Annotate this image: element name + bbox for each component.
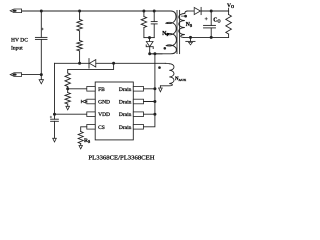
wire secondary top lead (187, 10, 194, 12)
svg-text:CS: CS (98, 125, 105, 131)
pin box left GND (87, 99, 95, 104)
wire startup top lead (79, 11, 81, 19)
svg-text:NP: NP (162, 31, 169, 37)
wire R4 top lead (67, 89, 69, 93)
wire secondary bottom wire (184, 36, 229, 38)
wire clamp join (144, 37, 154, 39)
resistor R1 startup upper (77, 19, 82, 31)
wire Z1 bottom lead (150, 47, 162, 54)
resistor R7 load (226, 15, 232, 35)
wire input return (22, 74, 42, 76)
wire C1 bottom lead (40, 39, 42, 74)
pin box right Drain3 (133, 112, 143, 117)
svg-text:GND: GND (98, 100, 110, 106)
wire C2 top lead (54, 114, 56, 119)
node drain pin2 junction (153, 100, 156, 103)
node output ground junction (189, 36, 192, 39)
diode Z1 clamp TVS points down (146, 42, 153, 47)
pin box right Drain1 (133, 87, 143, 92)
ground Rs arrow (80, 144, 82, 146)
pin box right Drain4 (133, 125, 143, 130)
wire startup mid lead (79, 31, 81, 41)
wire FB node to FB pin (68, 88, 87, 90)
pin box left FB (87, 87, 95, 92)
wire FB node lead (67, 87, 69, 89)
wire Z1 top lead (149, 38, 151, 42)
node VDD pin junction (53, 113, 56, 116)
wire Co bottom lead (210, 28, 212, 38)
ground C2 arrow (53, 138, 57, 142)
node drain pin1 junction (153, 87, 156, 90)
svg-text:Drain: Drain (119, 87, 132, 93)
connector J1 HV+ input terminal (10, 9, 21, 13)
wire drain bus (144, 54, 155, 127)
svg-text:NAUX: NAUX (175, 77, 187, 82)
pin box right Drain2 (133, 99, 143, 104)
node Z1 bottom junction (148, 52, 151, 55)
wire VDD pin wire (55, 113, 87, 115)
node Co top junction (210, 10, 213, 13)
node Co bottom junction (210, 36, 213, 39)
resistor R6 clamp (141, 17, 146, 28)
node drain bus top junction (153, 52, 156, 55)
resistor R2 startup lower (77, 41, 82, 51)
svg-text:Drain: Drain (119, 125, 132, 131)
resistor R5 Rs sense (78, 132, 83, 144)
connector J2 HV- input terminal (10, 73, 21, 77)
wire startup bottom lead (79, 51, 81, 63)
ground aux arrow (159, 86, 161, 88)
wire aux entry (165, 62, 169, 64)
node FB divider tap junction (112, 62, 115, 65)
ground FB divider arrow (67, 104, 69, 106)
capacitor C2 VDD bypass (51, 118, 59, 120)
wire load bottom lead (228, 34, 230, 37)
transformer T1 primary winding Np (150, 11, 177, 54)
node input return junction (40, 73, 43, 76)
diode D2 output rectifier points right (194, 7, 200, 14)
wire C2 bottom lead (54, 121, 56, 138)
transformer T1 aux winding Naux (160, 64, 174, 86)
transformer T1 core (176, 10, 178, 53)
ground GND pin arrow points left (86, 101, 87, 103)
pin box left VDD (87, 112, 95, 117)
node C1 top junction (40, 10, 43, 13)
capacitor C1 input bulk (35, 36, 47, 38)
svg-text:VDD: VDD (98, 112, 110, 118)
wire FB divider top link (68, 63, 114, 73)
node aux phase dot (158, 66, 161, 69)
wire C1 top lead (40, 11, 42, 37)
node clamp C top junction (153, 10, 156, 13)
wire output top (201, 10, 229, 12)
svg-text:Drain: Drain (119, 100, 132, 106)
pin box left CS (87, 125, 95, 130)
svg-text:VO: VO (227, 3, 234, 9)
wire top rail (22, 10, 163, 12)
resistor R4 FB lower (65, 93, 70, 105)
diode D1 VDD rectifier points left (88, 59, 90, 68)
wire Co top lead (210, 11, 212, 25)
wire VDD rail down to VDD pin (54, 63, 56, 114)
node primary phase dot (164, 47, 167, 50)
capacitor C3 clamp (151, 21, 157, 23)
svg-text:HV DC: HV DC (11, 37, 28, 43)
wire clamp R top lead (143, 11, 145, 17)
node VDD rail startup junction (78, 62, 81, 65)
node startup chain top junction (78, 10, 81, 13)
node clamp join junction (148, 36, 151, 39)
svg-text:CO: CO (213, 18, 221, 24)
svg-text:Input: Input (11, 46, 23, 52)
svg-text:FB: FB (98, 87, 105, 93)
node FB junction (66, 87, 69, 90)
svg-text:NS: NS (186, 22, 193, 28)
node clamp R top junction (142, 10, 145, 13)
ground output earth (190, 37, 192, 41)
wire Vo stub (228, 8, 230, 11)
capacitor C4 Co output (204, 24, 216, 26)
ground input return arrow (40, 75, 42, 80)
wire clamp C bottom lead (153, 24, 155, 38)
transformer T1 secondary winding Ns (179, 11, 188, 37)
wire clamp R bottom lead (143, 28, 145, 38)
node secondary phase dot (181, 15, 184, 17)
node drain pin3 junction (153, 113, 156, 116)
wire CS pin to Rs (81, 127, 87, 132)
wire clamp C top lead (153, 11, 155, 22)
svg-text:Drain: Drain (119, 112, 132, 118)
svg-text:RS: RS (84, 138, 91, 144)
resistor R3 FB upper (65, 73, 70, 87)
wire VDD rail left segment (55, 62, 90, 64)
svg-text:PL3368CE/PL3368CEH: PL3368CE/PL3368CEH (88, 154, 154, 161)
wire load top lead (228, 11, 230, 15)
wire aux rail from D1 to aux winding (96, 62, 166, 64)
IC U1 PL3368 body (95, 82, 133, 140)
